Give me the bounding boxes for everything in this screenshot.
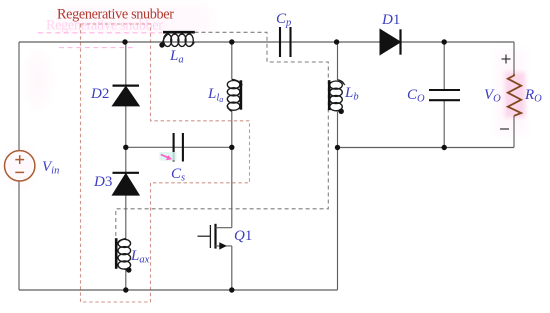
junction node Lla top — [229, 39, 234, 44]
magenta dashed annotation line lower — [59, 47, 133, 49]
highlight behind resistor RO — [505, 72, 526, 118]
wire D2-D3 node segment — [125, 106, 127, 174]
svg-text:D2: D2 — [90, 86, 109, 102]
wire Lb to bottom rail — [337, 112, 339, 290]
inductor La — [162, 34, 194, 46]
resistor RO — [508, 74, 521, 116]
transistor Q1 — [198, 224, 232, 250]
svg-text:Vin: Vin — [42, 159, 59, 177]
polarity dot Lax — [126, 267, 131, 272]
junction node Lax bottom rail — [123, 287, 128, 292]
svg-text:D1: D1 — [381, 12, 400, 28]
capacitor Cp — [280, 27, 291, 57]
wire Lax to bottom rail — [125, 270, 127, 291]
capacitor Cs — [174, 133, 183, 162]
inductor Lax — [118, 239, 131, 270]
wire CO branch bottom — [443, 100, 445, 147]
junction node Cs right — [229, 145, 234, 150]
magenta dashed annotation line upper — [38, 32, 162, 34]
wire Lla branch top — [231, 42, 233, 80]
core bar Lb — [328, 80, 331, 110]
snubber boundary (red dashed polygon) — [81, 24, 250, 302]
wire bottom rail — [19, 289, 338, 291]
svg-text:Lb: Lb — [344, 85, 359, 103]
junction node Q1 source rail — [229, 287, 234, 292]
core flux path (gray dashed) — [116, 32, 328, 238]
junction node CO bottom — [442, 145, 447, 150]
core bar La — [163, 31, 195, 34]
source Vin — [5, 151, 35, 181]
background washes — [4, 6, 525, 186]
svg-text:Lla: Lla — [207, 86, 223, 104]
svg-text:Cp: Cp — [276, 11, 291, 29]
cyan callout box at Cs — [160, 152, 177, 161]
junction node D1-CO — [442, 39, 447, 44]
svg-text:Lax: Lax — [130, 248, 150, 266]
diode D2 — [112, 86, 139, 106]
polarity dot La — [159, 42, 164, 47]
diode D3 — [112, 173, 139, 195]
capacitor CO — [429, 90, 460, 100]
plus terminal output — [502, 55, 511, 64]
wire left rail upper — [18, 42, 20, 151]
svg-text:Cs: Cs — [171, 166, 185, 184]
junction node output rail left — [335, 145, 340, 150]
wire D2 branch — [125, 42, 127, 86]
wire output bottom rail — [338, 147, 515, 149]
junction node top-left — [122, 39, 127, 44]
polarity dot Lb — [339, 109, 344, 114]
minus terminal output — [500, 128, 509, 130]
svg-text:La: La — [169, 48, 184, 66]
wire Lla to Q1 drain — [231, 111, 233, 228]
inductor Lla — [227, 79, 241, 111]
svg-text:D3: D3 — [93, 174, 112, 190]
svg-text:Q1: Q1 — [234, 228, 252, 244]
wire left rail lower — [18, 181, 20, 290]
wire Cs rail — [126, 146, 232, 148]
wire Q1 source to bottom rail — [231, 246, 233, 290]
junction node Cp-D1-Lb — [334, 39, 339, 44]
svg-text:RO: RO — [524, 87, 542, 105]
wire top rail — [19, 41, 514, 43]
core bar Lla — [240, 80, 243, 109]
wire Lb branch top — [337, 42, 339, 80]
wire D3 to Lax — [125, 195, 127, 239]
svg-text:CO: CO — [407, 87, 425, 105]
diode D1 — [380, 29, 401, 54]
wire CO branch top — [443, 42, 445, 90]
magenta arrow at Cs — [161, 155, 172, 161]
core bar Lax — [115, 238, 118, 269]
wire right rail to RO top — [513, 42, 515, 74]
wire RO bottom to output rail — [513, 116, 515, 148]
inductor Lb — [330, 80, 345, 112]
junction node Cs left — [123, 145, 128, 150]
svg-text:Regenerative snubber: Regenerative snubber — [57, 7, 174, 23]
